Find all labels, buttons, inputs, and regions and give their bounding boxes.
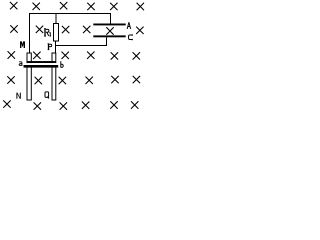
label a: [19, 62, 22, 66]
rod top line: [27, 61, 57, 63]
label R1: [44, 29, 51, 36]
circuit wires: [30, 14, 111, 54]
capacitor plate C: [93, 35, 125, 37]
wire below R1 to rail P: [55, 41, 57, 53]
rail MN: [27, 53, 31, 100]
label M: [20, 41, 25, 48]
capacitor plate A: [93, 24, 125, 26]
label P: [48, 44, 52, 50]
wire capacitor branch: [56, 38, 107, 46]
label Q: [45, 92, 49, 99]
rod gap eraser: [24, 63, 58, 65]
wire top: [30, 14, 111, 54]
field-x marks B into page: [3, 2, 144, 110]
label A: [127, 22, 131, 28]
label C: [129, 34, 133, 40]
resistor R1 box: [54, 24, 59, 42]
rail PQ: [52, 53, 56, 100]
wire R1 stub: [55, 14, 57, 24]
label b: [61, 61, 63, 67]
rod ab bar: [24, 65, 59, 68]
label N: [16, 93, 20, 99]
